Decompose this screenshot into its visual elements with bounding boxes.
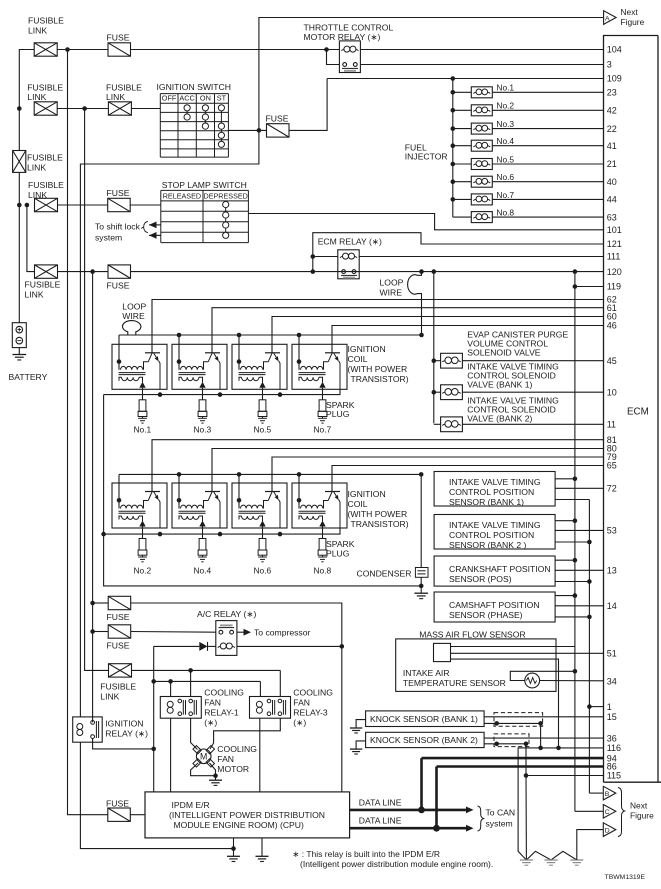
svg-text:FUSE: FUSE — [106, 799, 129, 809]
node 116 row junctions — [538, 746, 561, 751]
svg-text:SENSOR (BANK 2 ): SENSOR (BANK 2 ) — [449, 540, 526, 550]
svg-text:No.1: No.1 — [496, 83, 514, 93]
svg-text:3: 3 — [607, 60, 612, 70]
svg-text:IPDM E/R: IPDM E/R — [172, 800, 210, 810]
ignition coil No.3 — [172, 344, 227, 389]
wire row3-to-row4 branch — [27, 205, 35, 272]
svg-text:15: 15 — [607, 712, 617, 722]
fuse AC contact — [107, 625, 131, 651]
node fuse AC rail junction — [90, 601, 95, 606]
svg-text:To CAN: To CAN — [486, 808, 516, 818]
svg-text:system: system — [486, 819, 513, 829]
capacitor condenser — [357, 474, 429, 593]
wire sensor supply rail to triangle C — [575, 810, 603, 812]
fuel injector No.2 — [451, 101, 604, 116]
brace next figure bottom — [618, 788, 625, 837]
wire row1 fuse to throttle relay — [131, 49, 340, 51]
svg-text:ECM RELAY (∗): ECM RELAY (∗) — [318, 237, 382, 247]
svg-text:FUSIBLE: FUSIBLE — [27, 153, 63, 163]
svg-text:INTAKE VALVE TIMING: INTAKE VALVE TIMING — [449, 520, 541, 530]
svg-text:RELEASED: RELEASED — [163, 192, 201, 201]
svg-text:65: 65 — [607, 461, 617, 471]
svg-text:M: M — [200, 752, 207, 762]
svg-text:FAN: FAN — [204, 698, 221, 708]
ignition coil No.4 — [172, 483, 227, 528]
wire sensor supply rail x575 — [574, 272, 576, 812]
wire data line 2 thick — [350, 767, 604, 832]
svg-text:INJECTOR: INJECTOR — [405, 152, 448, 162]
svg-text:(∗): (∗) — [204, 718, 217, 728]
fusible link FL vertical (on battery rail) — [13, 151, 63, 173]
wire knock2 shield to 115 row — [525, 744, 527, 776]
node 119-row junction — [573, 284, 578, 289]
wire valve feed rail — [433, 272, 435, 424]
label spark plug lower — [326, 539, 355, 558]
wire row3 FL to fuse — [58, 204, 108, 206]
fuse row1 — [107, 33, 131, 57]
IPDM E/R box — [145, 792, 350, 838]
svg-text:LINK: LINK — [27, 163, 46, 173]
spark plug No.4 — [194, 528, 212, 575]
ignition coil No.6 — [232, 483, 287, 528]
node row2 rail-C junction — [82, 106, 87, 111]
svg-text:COOLING: COOLING — [293, 688, 333, 698]
fusible link cooling fan — [100, 664, 136, 702]
fusible link row3 — [28, 180, 64, 212]
node battery rail row3 junction — [17, 203, 29, 208]
wire row4 fuse to ECM relay and pin 120 — [131, 271, 604, 273]
svg-text:SENSOR (BANK 1): SENSOR (BANK 1) — [449, 497, 524, 507]
svg-text:WIRE: WIRE — [122, 311, 145, 321]
svg-text:10: 10 — [607, 387, 617, 397]
node lower coil bus junctions — [177, 472, 424, 477]
wire to shift lock system arrows — [95, 222, 161, 243]
svg-text:FUSIBLE: FUSIBLE — [28, 16, 64, 26]
ground bottom 1 — [520, 859, 533, 861]
node 120-row valve rail junction — [432, 269, 437, 274]
node condenser ground junction — [419, 584, 424, 589]
svg-text:TRANSISTOR): TRANSISTOR) — [351, 519, 409, 529]
svg-text:VALVE (BANK 1): VALVE (BANK 1) — [467, 380, 532, 390]
svg-text:COIL: COIL — [348, 354, 368, 364]
wire AC loop top and right — [131, 603, 342, 792]
wire fuse AC left — [93, 602, 109, 604]
relay ignition relay — [73, 717, 148, 742]
wire rail-C row2 to bottom fusible link — [85, 109, 109, 671]
fuse IPDM — [106, 799, 130, 822]
ignition coil No.2 — [112, 483, 167, 528]
sensor knock bank2 — [350, 732, 604, 754]
fuse AC loop — [107, 596, 131, 622]
svg-text:LINK: LINK — [27, 92, 46, 102]
battery — [9, 323, 48, 382]
svg-text:45: 45 — [607, 356, 617, 366]
svg-text:KNOCK SENSOR (BANK 2): KNOCK SENSOR (BANK 2) — [370, 735, 478, 745]
svg-text:No.6: No.6 — [496, 172, 514, 182]
svg-text:LINK: LINK — [28, 190, 47, 200]
svg-text:LOOP: LOOP — [380, 278, 404, 288]
svg-text:21: 21 — [607, 159, 617, 169]
label spark plug upper — [326, 400, 355, 419]
svg-text:INTAKE VALVE TIMING: INTAKE VALVE TIMING — [449, 477, 541, 487]
svg-text:36: 36 — [607, 733, 617, 743]
wire sensor-ground rail to pin 1 and triangle B — [587, 704, 603, 793]
relay ECM relay — [318, 237, 382, 279]
wire throttle relay contact to pin 3 — [360, 64, 603, 66]
svg-text:46: 46 — [607, 321, 617, 331]
svg-text:No.4: No.4 — [496, 136, 514, 146]
node fuse AC contact rail junction — [90, 629, 95, 634]
node injector rail top — [451, 76, 456, 81]
svg-text:13: 13 — [607, 566, 617, 576]
wire battery positive rail — [19, 50, 34, 323]
svg-text:41: 41 — [607, 141, 617, 151]
svg-text:PLUG: PLUG — [326, 548, 350, 558]
svg-text:(WITH POWER: (WITH POWER — [348, 509, 408, 519]
wire coil signal rows 62 61 60 46 — [152, 300, 604, 345]
svg-text:OFF: OFF — [162, 94, 177, 103]
motor cooling fan — [193, 744, 257, 774]
svg-text:FUSIBLE: FUSIBLE — [28, 180, 64, 190]
svg-text:22: 22 — [607, 124, 617, 134]
sensor knock bank1 — [350, 711, 604, 733]
connector triangle B next figure — [603, 786, 616, 800]
svg-text:No.6: No.6 — [254, 565, 272, 575]
fuel injector No.3 — [451, 119, 604, 134]
solenoid valve EVAP canister purge — [432, 330, 604, 369]
svg-text:IGNITION: IGNITION — [105, 719, 143, 729]
svg-text:40: 40 — [607, 177, 617, 187]
wire row1 FL to fuse — [57, 49, 108, 51]
connector triangle D next figure — [603, 823, 616, 837]
svg-text:14: 14 — [607, 601, 617, 611]
wire ground zigzag bus — [526, 851, 576, 860]
fusible link row4 — [25, 265, 61, 300]
wire row4 FL to fuse — [58, 271, 109, 273]
svg-text:C: C — [605, 809, 610, 816]
svg-text:RELAY-1: RELAY-1 — [204, 708, 239, 718]
svg-text:No.5: No.5 — [496, 154, 514, 164]
svg-text:No.5: No.5 — [254, 425, 272, 435]
node upper coil bus junctions — [177, 333, 424, 338]
fuel injector No.6 — [451, 172, 604, 187]
svg-text:121: 121 — [607, 239, 622, 249]
wire stop lamp switch to pin 101 — [248, 214, 603, 230]
spark plug No.3 — [194, 389, 212, 434]
svg-text:SENSOR (POS): SENSOR (POS) — [449, 574, 512, 584]
sensor mass air flow — [396, 629, 604, 748]
wire fuse to injector rail riser — [289, 79, 327, 131]
ECM pin number labels — [607, 45, 622, 781]
wire upper coil feeds — [119, 335, 299, 344]
wire ignition switch output to fuse — [228, 129, 266, 131]
ignition coil No.5 — [232, 344, 287, 389]
svg-text:B: B — [605, 791, 610, 798]
wire relay3 contact to motor — [210, 718, 280, 749]
wire coil signal rows 81 80 79 65 — [152, 440, 604, 483]
footnote relay note — [292, 849, 493, 869]
svg-text:No.2: No.2 — [134, 565, 152, 575]
svg-text:No.7: No.7 — [496, 190, 514, 200]
wire triangle D to ground — [577, 830, 603, 860]
svg-text:ECM: ECM — [627, 407, 649, 418]
svg-text:VALVE (BANK 2): VALVE (BANK 2) — [467, 414, 532, 424]
sensor intake valve timing control position bank2 — [434, 515, 603, 550]
node row1 throttle relay branch — [324, 47, 329, 52]
wire cooling fan contact feed row — [132, 668, 281, 697]
ECM box — [604, 36, 661, 783]
svg-text:LINK: LINK — [25, 290, 44, 300]
svg-text:Figure: Figure — [621, 17, 645, 27]
wire IPDM ground 1 — [227, 838, 240, 862]
wire relay3 coil to IPDM — [259, 718, 261, 792]
sensor crankshaft position POS — [434, 556, 603, 586]
wire ignition relay output to coil rail — [93, 739, 156, 752]
svg-text:A: A — [605, 15, 610, 22]
svg-text:BATTERY: BATTERY — [9, 372, 48, 382]
loop wire lower (coil bank) — [122, 302, 146, 335]
fusible link row1 — [28, 16, 64, 57]
svg-text:COIL: COIL — [348, 499, 368, 509]
svg-text:72: 72 — [607, 484, 617, 494]
svg-text:DATA LINE: DATA LINE — [359, 816, 402, 826]
wire ignition return to rail-B — [80, 130, 259, 717]
wire relay1 contact to motor — [191, 718, 198, 749]
svg-text:53: 53 — [607, 526, 617, 536]
svg-text:Next: Next — [621, 7, 639, 17]
svg-text:∗ : This relay is built into t: ∗ : This relay is built into the IPDM E/… — [292, 849, 440, 859]
svg-text:TRANSISTOR): TRANSISTOR) — [351, 374, 409, 384]
svg-text:116: 116 — [607, 743, 621, 753]
svg-text:42: 42 — [607, 106, 617, 116]
svg-text:No.3: No.3 — [496, 119, 514, 129]
svg-text:WIRE: WIRE — [380, 288, 403, 298]
svg-text:FAN: FAN — [217, 754, 234, 764]
fuse row4 — [107, 265, 131, 291]
ignition coil No.7 — [292, 344, 347, 389]
svg-text:TEMPERATURE SENSOR: TEMPERATURE SENSOR — [403, 678, 506, 688]
svg-text:FAN: FAN — [293, 698, 310, 708]
svg-text:COOLING: COOLING — [204, 688, 244, 698]
node knock2 at 115 row — [524, 773, 529, 778]
fuel injector No.1 — [451, 83, 604, 98]
wire lower coil ground rail — [104, 528, 340, 536]
svg-text:PLUG: PLUG — [326, 409, 350, 419]
sensor intake valve timing control position bank1 — [434, 472, 603, 507]
fuel injector No.7 — [451, 190, 604, 205]
node lower rail junction — [101, 532, 106, 537]
wire left coil ground rail down — [104, 395, 422, 586]
svg-text:IGNITION SWITCH: IGNITION SWITCH — [157, 82, 231, 92]
wire relay1 coil to IPDM — [170, 718, 172, 792]
ignition switch — [157, 82, 231, 157]
svg-text:LINK: LINK — [100, 692, 119, 702]
spark plug No.5 — [254, 389, 272, 434]
spark plug No.6 — [254, 528, 272, 575]
svg-text:109: 109 — [607, 74, 622, 84]
svg-text:Next: Next — [630, 801, 648, 811]
wire AC relay contact to compressor — [237, 628, 311, 638]
svg-text:TBWM1319E: TBWM1319E — [605, 874, 646, 881]
ignition coil No.1 — [112, 344, 167, 389]
wire fuse to IPDM — [130, 814, 145, 816]
ground bottom 3 — [570, 859, 583, 861]
relay cooling fan relay-1 — [160, 688, 244, 728]
node 120-row sensor rail junction — [573, 269, 578, 274]
spark plug No.7 — [314, 389, 332, 434]
wire row2 FL to FL3 — [57, 108, 108, 110]
wire 119 row — [575, 286, 604, 288]
node row1 rail-A junction — [65, 47, 70, 52]
svg-text:STOP LAMP SWITCH: STOP LAMP SWITCH — [162, 180, 247, 190]
wire rail-A row1 to IPDM fuse — [68, 50, 108, 815]
svg-text:CAMSHAFT POSITION: CAMSHAFT POSITION — [449, 600, 540, 610]
relay throttle control motor relay — [304, 23, 394, 73]
diode AC relay coil — [154, 642, 342, 651]
svg-text:44: 44 — [607, 195, 617, 205]
svg-text:FUSE: FUSE — [266, 114, 289, 124]
svg-text:SENSOR (PHASE): SENSOR (PHASE) — [449, 610, 523, 620]
wire ECM relay coil to pin 111 — [359, 256, 603, 258]
svg-text:ON: ON — [200, 94, 211, 103]
svg-text:A/C RELAY (∗): A/C RELAY (∗) — [197, 609, 257, 619]
ground cooling fan motor — [209, 779, 222, 781]
svg-text:DATA LINE: DATA LINE — [359, 797, 402, 807]
sensor camshaft position PHASE — [434, 592, 603, 622]
wire lower coil bus — [119, 473, 421, 475]
svg-text:FUSE: FUSE — [107, 33, 130, 43]
svg-text:CONDENSER: CONDENSER — [357, 569, 412, 579]
svg-text:119: 119 — [607, 282, 621, 292]
label to CAN system — [478, 806, 516, 831]
svg-text:34: 34 — [607, 677, 617, 687]
svg-text:FUSE: FUSE — [107, 188, 130, 198]
svg-text:LINK: LINK — [106, 92, 125, 102]
node 120-row loop wire junction — [419, 269, 424, 274]
svg-text:CONTROL POSITION: CONTROL POSITION — [449, 487, 534, 497]
svg-text:MODULE ENGINE ROOM) (CPU): MODULE ENGINE ROOM) (CPU) — [174, 820, 304, 830]
svg-text:ACC: ACC — [179, 94, 194, 103]
svg-text:101: 101 — [607, 225, 622, 235]
svg-text:ST: ST — [217, 94, 227, 103]
wire fuse to AC relay contact — [93, 631, 109, 633]
relay cooling fan relay-3 — [250, 688, 334, 728]
svg-text:SOLENOID VALVE: SOLENOID VALVE — [467, 348, 540, 358]
svg-text:Figure: Figure — [630, 811, 654, 821]
wire cooling fan coil feed row — [154, 679, 261, 697]
fuse ignition switch output — [266, 114, 290, 138]
svg-text:23: 23 — [607, 88, 617, 98]
connector triangle A to next figure — [604, 7, 645, 27]
wire 116 row — [518, 748, 603, 750]
svg-text:(INTELLIGENT POWER DISTRIBUTIO: (INTELLIGENT POWER DISTRIBUTION — [169, 810, 325, 820]
svg-text:INTAKE AIR: INTAKE AIR — [403, 668, 450, 678]
svg-text:FUSE: FUSE — [107, 281, 130, 291]
solenoid valve intake valve timing bank2 — [434, 396, 604, 432]
wire throttle relay coil to pin 104 — [360, 49, 603, 51]
wire rail 312 coil-to-120row — [312, 257, 314, 272]
svg-text:RELAY (∗): RELAY (∗) — [105, 729, 148, 739]
wire AC coil rail down to IPDM — [153, 646, 155, 792]
svg-text:No.2: No.2 — [496, 101, 514, 111]
wire motor to ground — [191, 763, 218, 780]
svg-text:KNOCK SENSOR (BANK 1): KNOCK SENSOR (BANK 1) — [370, 714, 478, 724]
svg-text:CRANKSHAFT POSITION: CRANKSHAFT POSITION — [449, 564, 551, 574]
svg-text:(WITH POWER: (WITH POWER — [348, 364, 408, 374]
wire data line 1 thick — [350, 758, 604, 813]
svg-text:No.3: No.3 — [194, 425, 212, 435]
node coil-feed row junction — [151, 679, 156, 684]
sensor intake air temperature — [403, 668, 604, 688]
svg-text:system: system — [95, 233, 122, 243]
svg-text:RELAY-3: RELAY-3 — [293, 708, 328, 718]
spark plug No.1 — [134, 389, 152, 434]
ground condenser — [414, 592, 428, 594]
fusible link row2b — [106, 83, 142, 116]
wire ignition-switch feed to next-figure A — [259, 18, 603, 131]
svg-text:No.7: No.7 — [314, 425, 332, 435]
svg-text:120: 120 — [607, 267, 622, 277]
svg-text:(Intelligent power distributio: (Intelligent power distribution module e… — [300, 859, 493, 869]
svg-text:No.8: No.8 — [496, 208, 514, 218]
svg-text:51: 51 — [607, 649, 617, 659]
svg-text:FUSIBLE: FUSIBLE — [100, 682, 136, 692]
solenoid valve intake valve timing bank1 — [432, 362, 604, 400]
relay A/C relay — [197, 609, 257, 655]
svg-text:D: D — [605, 827, 610, 834]
wire rail-D row4 to bottom fuses — [92, 272, 94, 723]
svg-text:IGNITION: IGNITION — [348, 489, 386, 499]
wire throttle relay contact feed — [327, 50, 340, 65]
wire sensor ground rail x589 — [588, 500, 590, 794]
svg-text:115: 115 — [607, 771, 621, 781]
svg-text:To shift lock: To shift lock — [95, 222, 141, 232]
svg-text:FUSIBLE: FUSIBLE — [106, 83, 142, 93]
svg-text:LINK: LINK — [28, 26, 47, 36]
svg-text:No.4: No.4 — [194, 565, 212, 575]
svg-text:(∗): (∗) — [293, 718, 306, 728]
wire lower coil feeds — [119, 474, 299, 483]
wire upper coil ground rail — [104, 389, 340, 397]
svg-text:104: 104 — [607, 45, 622, 55]
svg-text:FUSE: FUSE — [107, 641, 130, 651]
svg-text:DEPRESSED: DEPRESSED — [204, 192, 248, 201]
svg-text:COOLING: COOLING — [217, 744, 257, 754]
wire knock1 shield to 116 row — [540, 723, 542, 748]
wire 115 row — [526, 775, 604, 777]
connector triangle C next figure — [603, 805, 616, 819]
svg-text:1: 1 — [607, 702, 612, 712]
node AC coil junction right — [340, 644, 345, 649]
fuel injector No.4 — [451, 136, 604, 151]
wire upper coil bus — [119, 334, 422, 336]
wire injector feed rail — [327, 79, 603, 218]
loop wire upper — [380, 272, 422, 336]
svg-text:IGNITION: IGNITION — [348, 344, 386, 354]
wire ignition relay coil to IPDM ground row — [80, 742, 233, 848]
fusible link row2 — [27, 83, 63, 116]
spark plug No.8 — [314, 528, 332, 575]
stop lamp switch — [161, 180, 249, 243]
node battery rail row2 junction — [17, 106, 22, 111]
fuel injector No.8 — [453, 208, 604, 223]
wire fuse to stop lamp switch — [130, 204, 161, 206]
fuse stop lamp — [107, 188, 131, 212]
wire row2 FL3 to ignition switch — [131, 108, 160, 110]
svg-text:MASS AIR FLOW SENSOR: MASS AIR FLOW SENSOR — [419, 629, 526, 639]
svg-text:MOTOR: MOTOR — [217, 764, 249, 774]
ignition coil No.8 — [292, 483, 347, 528]
